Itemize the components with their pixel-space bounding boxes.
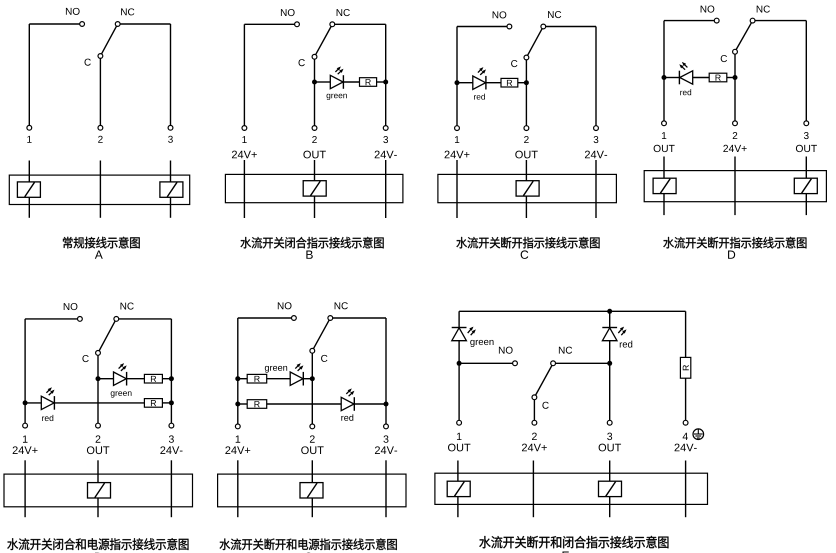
wire terminal3 to NC (D) bbox=[805, 21, 807, 121]
caption (G) bbox=[479, 536, 490, 548]
wire through block (C) bbox=[525, 160, 527, 218]
label red (G) bbox=[620, 342, 622, 347]
resistor R (E red row) bbox=[144, 399, 162, 408]
pin number 2 (C) bbox=[524, 136, 529, 143]
node NO (D) bbox=[714, 18, 719, 23]
terminal block (D) bbox=[644, 171, 826, 202]
pin number 3 (A) bbox=[168, 136, 173, 143]
node NC (B) bbox=[330, 22, 335, 27]
caption (D) bbox=[663, 237, 674, 248]
pin number 1 (A) bbox=[27, 136, 31, 143]
resistor R (E green row) bbox=[144, 374, 162, 383]
net label 24V+ (E) bbox=[13, 446, 18, 454]
wire top bus to green LED (G) bbox=[458, 311, 460, 327]
switch arm C-NC (A) bbox=[102, 26, 117, 54]
node NO (G) bbox=[513, 361, 518, 366]
pin number 3 (C) bbox=[594, 136, 599, 143]
wire terminal1 to NO (B) bbox=[243, 24, 245, 125]
terminal pin 3 (G) bbox=[607, 420, 612, 425]
wire green LED to junction (G) bbox=[458, 341, 460, 363]
wire through block (G) bbox=[685, 461, 687, 518]
diagram letter C bbox=[521, 250, 529, 258]
diagram letter D bbox=[728, 251, 735, 259]
label NC (D) bbox=[757, 6, 763, 13]
wire red LED to terminal3 (G) bbox=[609, 341, 611, 420]
wire LED to R (B) bbox=[343, 81, 359, 83]
switch arm C-NC (D) bbox=[736, 23, 751, 50]
label NO (G) bbox=[499, 347, 505, 354]
relay contact box (A) bbox=[160, 182, 183, 197]
LED red (E) bbox=[41, 396, 54, 409]
node NO (C) bbox=[507, 24, 512, 29]
LED D1 red (C) bbox=[473, 76, 486, 89]
wire through block (B) bbox=[385, 160, 387, 218]
relay contact box K1 (G) bbox=[447, 481, 470, 496]
wire NC to red branch (G) bbox=[556, 362, 610, 364]
wire LED to R (E) bbox=[54, 402, 144, 404]
terminal pin 3 (A) bbox=[168, 125, 173, 130]
wire top bus to red LED (G) bbox=[609, 311, 611, 327]
caption (F) bbox=[220, 539, 231, 550]
terminal block (B) bbox=[225, 174, 403, 202]
pin number 1 (E) bbox=[23, 435, 28, 442]
terminal pin 3 (C) bbox=[594, 126, 599, 131]
label green (F) bbox=[265, 366, 269, 373]
diagram F: open + power indication wiring bbox=[218, 302, 406, 553]
resistor R (C) bbox=[501, 78, 518, 87]
label NC (F) bbox=[335, 302, 341, 309]
wire junction to NO (G) bbox=[459, 362, 512, 364]
label NC (G) bbox=[559, 347, 565, 354]
wire LED to R (D) bbox=[693, 77, 710, 79]
label C (G) bbox=[542, 402, 548, 409]
node C (C) bbox=[524, 55, 529, 60]
terminal pin 1 (C) bbox=[455, 126, 460, 131]
wire R to junction (E) bbox=[162, 378, 171, 380]
wire C to terminal2 (A) bbox=[99, 59, 101, 126]
pin number 2 (A) bbox=[98, 136, 103, 143]
switch arm C-NC (G) bbox=[536, 366, 552, 396]
resistor R (D) bbox=[709, 73, 727, 82]
pin number 1 (C) bbox=[455, 136, 459, 143]
diagram E: closed + power indication wiring bbox=[4, 303, 193, 553]
switch arm C-NC (F) bbox=[314, 320, 330, 348]
terminal pin 2 (G) bbox=[532, 420, 537, 425]
label C (C) bbox=[511, 60, 517, 67]
label red (C) bbox=[474, 95, 476, 99]
wire top bus right down to R (G) bbox=[685, 311, 687, 357]
junction (E green row left) bbox=[96, 376, 101, 381]
LED D1 red (D) bbox=[678, 71, 680, 85]
label red (F) bbox=[341, 416, 343, 421]
label C (A) bbox=[84, 59, 90, 66]
net label 24V- (E) bbox=[160, 446, 165, 454]
label red (D) bbox=[680, 91, 682, 95]
relay contact box (B) bbox=[303, 181, 326, 196]
wire R to LED (F) bbox=[267, 378, 291, 380]
wire through block (G) bbox=[532, 461, 534, 518]
diagram letter below caption (G) bbox=[562, 552, 569, 553]
diagram A: normal wiring bbox=[9, 8, 189, 259]
wire (B LED branch) bbox=[315, 81, 331, 83]
wire R to junction (D) bbox=[727, 77, 735, 79]
LED arrows (C) bbox=[478, 67, 486, 75]
pin number 3 (F) bbox=[383, 435, 388, 442]
junction (C LED branch left) bbox=[455, 80, 460, 85]
wire R to terminal4 (G) bbox=[685, 378, 687, 420]
net label OUT (G) bbox=[599, 444, 607, 452]
node C (E) bbox=[96, 351, 101, 356]
junction (F red row left) bbox=[235, 402, 240, 407]
pin number 3 (G) bbox=[607, 433, 612, 440]
net label OUT (F) bbox=[301, 446, 309, 454]
wire R to LED (F) bbox=[267, 403, 342, 405]
label NC (B) bbox=[337, 9, 343, 16]
wire terminal1 to NO (A) bbox=[28, 24, 30, 125]
LED green (E) bbox=[114, 372, 127, 385]
node C (A) bbox=[98, 54, 103, 59]
wire terminal3 to NC (C) bbox=[595, 27, 597, 126]
node NC (D) bbox=[750, 18, 755, 23]
LED green (F) bbox=[290, 372, 303, 385]
junction (F green row left) bbox=[235, 376, 240, 381]
terminal pin 1 (A) bbox=[27, 125, 32, 130]
LED red (G) bbox=[602, 327, 617, 329]
label NO (E) bbox=[64, 303, 70, 310]
junction (B LED branch right) bbox=[383, 80, 388, 85]
wire terminal3 to NC (B) bbox=[385, 24, 387, 125]
relay contact box (D) bbox=[653, 178, 676, 193]
terminal pin 3 (B) bbox=[383, 126, 388, 131]
node NC (F) bbox=[328, 316, 333, 321]
node C (D) bbox=[733, 49, 738, 54]
node NO (B) bbox=[295, 22, 300, 27]
wire C to terminal2 (C) bbox=[525, 60, 527, 126]
wire terminal1 to NO (F) bbox=[237, 318, 239, 424]
wire terminal1 to NO (C) bbox=[456, 27, 458, 126]
terminal block (F) bbox=[218, 474, 406, 507]
terminal pin 1 (F) bbox=[235, 424, 240, 429]
terminal pin 3 (E) bbox=[169, 423, 174, 428]
LED arrows (D) bbox=[679, 62, 687, 70]
node C (B) bbox=[312, 54, 317, 59]
wire through block (D) bbox=[663, 157, 665, 216]
junction (B LED branch left) bbox=[312, 80, 317, 85]
label NO (A) bbox=[66, 8, 72, 15]
pin number 3 (D) bbox=[804, 132, 809, 139]
top bus wire (G) bbox=[459, 310, 685, 312]
net label 24V- (C) bbox=[585, 151, 590, 159]
pin number 4 (G) bbox=[683, 433, 688, 440]
wire (D LED branch) bbox=[664, 77, 679, 79]
junction (D LED branch left) bbox=[662, 75, 667, 80]
wire LED to R (C) bbox=[486, 82, 501, 84]
relay contact box (D) bbox=[794, 178, 817, 193]
LED arrows green (G) bbox=[468, 327, 476, 336]
pin number 2 (F) bbox=[310, 435, 315, 442]
terminal pin 2 (B) bbox=[312, 126, 317, 131]
wire R to junction (E) bbox=[162, 402, 171, 404]
wire C to terminal2 (B) bbox=[314, 59, 316, 125]
node NO (F) bbox=[292, 316, 297, 321]
pin number 2 (E) bbox=[96, 435, 101, 442]
label green (G) bbox=[470, 340, 474, 347]
node NC (A) bbox=[115, 22, 120, 27]
LED arrows (F) bbox=[346, 388, 354, 396]
wire through block (G) bbox=[609, 461, 611, 518]
label NO (C) bbox=[493, 11, 499, 18]
resistor R (F red row) bbox=[247, 400, 267, 409]
node NO (A) bbox=[80, 22, 85, 27]
diagram D: open-indication wiring variant bbox=[644, 6, 826, 259]
net label 24V- (B) bbox=[375, 151, 380, 159]
net label 24V- (G) bbox=[675, 444, 680, 452]
net label 24V+ (C) bbox=[445, 151, 450, 159]
wire C to terminal2 (F) bbox=[311, 353, 313, 424]
switch arm C-NC (E) bbox=[99, 321, 115, 351]
wire C to terminal2 (D) bbox=[734, 54, 736, 121]
resistor R (B) bbox=[360, 78, 377, 87]
terminal pin 1 (E) bbox=[23, 423, 28, 428]
protective earth symbol (G) bbox=[693, 429, 704, 440]
terminal pin 2 (F) bbox=[310, 424, 315, 429]
terminal pin 2 (E) bbox=[96, 423, 101, 428]
wire (E) bbox=[98, 378, 114, 380]
diagram letter A bbox=[95, 251, 103, 259]
wire through block (F) bbox=[237, 460, 239, 517]
net label OUT (D) bbox=[654, 145, 661, 152]
node NC (C) bbox=[541, 24, 546, 29]
wire through block (F) bbox=[385, 460, 387, 517]
node NC (E) bbox=[114, 317, 119, 322]
wire LED to junction (F) bbox=[303, 378, 312, 380]
wire through block (D) bbox=[805, 157, 807, 216]
net label OUT (D) bbox=[796, 145, 803, 152]
terminal block (E) bbox=[4, 474, 193, 507]
junction (F red row right) bbox=[384, 402, 389, 407]
pin number 1 (G) bbox=[457, 433, 462, 440]
resistor R (F green row) bbox=[247, 374, 267, 383]
pin number 1 (B) bbox=[242, 136, 246, 143]
label C (F) bbox=[321, 355, 327, 362]
wire terminal1 to NO (E) bbox=[24, 319, 26, 423]
terminal block (A) bbox=[9, 175, 189, 204]
node NO (E) bbox=[78, 317, 83, 322]
relay contact box K2 (G) bbox=[599, 481, 622, 496]
diagram G: open + closed indication wiring bbox=[435, 309, 708, 553]
terminal block (C) bbox=[438, 174, 617, 202]
pin number 3 (E) bbox=[169, 435, 174, 442]
terminal pin 4 (G) bbox=[683, 420, 688, 425]
LED red (F) bbox=[341, 397, 354, 410]
caption (B) bbox=[240, 237, 251, 248]
pin number 1 (D) bbox=[662, 132, 666, 139]
diagram B: closed-indication wiring bbox=[225, 9, 403, 259]
wire through block (D) bbox=[734, 157, 736, 216]
wire through block (A) bbox=[170, 161, 172, 218]
wire (F) bbox=[238, 403, 247, 405]
terminal pin 3 (D) bbox=[804, 121, 809, 126]
wire through block (G) bbox=[457, 461, 459, 518]
LED arrows red (G) bbox=[618, 327, 626, 336]
pin number 1 (F) bbox=[236, 435, 241, 442]
LED arrows (E) bbox=[46, 387, 54, 395]
pin number 2 (D) bbox=[733, 132, 738, 139]
wire through block (E) bbox=[170, 460, 172, 517]
net label 24V- (F) bbox=[375, 446, 380, 454]
label NC (A) bbox=[121, 8, 127, 15]
wire through block (E) bbox=[97, 460, 99, 517]
wire LED to junction (F) bbox=[354, 403, 386, 405]
terminal block (G) bbox=[435, 473, 708, 504]
caption (A) bbox=[63, 237, 73, 249]
label NO (F) bbox=[278, 302, 284, 309]
label green (B) bbox=[327, 94, 331, 100]
wire (E) bbox=[25, 402, 41, 404]
net label 24V+ (G) bbox=[522, 444, 527, 452]
terminal pin 1 (G) bbox=[457, 420, 462, 425]
resistor R vertical (G) bbox=[680, 357, 690, 378]
net label OUT (E) bbox=[87, 446, 95, 454]
node NC (G) bbox=[551, 361, 556, 366]
wire through block (B) bbox=[314, 160, 316, 218]
label C (D) bbox=[721, 55, 727, 62]
terminal pin 3 (F) bbox=[384, 424, 389, 429]
label NC (E) bbox=[121, 303, 127, 310]
net label OUT (B) bbox=[303, 151, 311, 159]
caption (C) bbox=[456, 237, 467, 248]
wire LED to R (E) bbox=[127, 378, 145, 380]
relay contact box (F) bbox=[300, 483, 323, 498]
wire terminal3 to NC (E) bbox=[170, 319, 172, 423]
wire through block (B) bbox=[243, 160, 245, 218]
wire C to terminal2 (E) bbox=[97, 355, 99, 423]
LED D1 green (B) bbox=[330, 75, 343, 88]
relay contact box (C) bbox=[516, 181, 539, 196]
net label 24V+ (D) bbox=[723, 145, 728, 152]
terminal pin 2 (C) bbox=[524, 126, 529, 131]
wire through block (A) bbox=[99, 161, 101, 218]
junction NC wire / red branch (G) bbox=[607, 361, 612, 366]
terminal pin 1 (B) bbox=[242, 126, 247, 131]
wire terminal1 to NO (D) bbox=[663, 21, 665, 121]
junction (D LED branch right) bbox=[733, 75, 738, 80]
wire R to junction (C) bbox=[518, 82, 527, 84]
net label OUT (G) bbox=[448, 444, 456, 452]
pin number 2 (G) bbox=[532, 433, 537, 440]
junction NO row (G) bbox=[457, 361, 462, 366]
wire terminal1 (G) bbox=[458, 363, 460, 420]
LED arrows (F) bbox=[295, 363, 303, 371]
label NC (C) bbox=[548, 11, 554, 18]
LED arrows (E) bbox=[119, 363, 127, 371]
node C (G) bbox=[532, 395, 537, 400]
net label 24V+ (F) bbox=[225, 446, 230, 454]
wire (C LED branch) bbox=[457, 82, 473, 84]
wire R to junction (B) bbox=[377, 81, 386, 83]
switch arm C-NC (C) bbox=[528, 29, 543, 56]
diagram letter B bbox=[306, 251, 312, 259]
net label 24V+ (B) bbox=[232, 151, 237, 159]
net label OUT (C) bbox=[515, 151, 523, 159]
terminal pin 1 (D) bbox=[662, 121, 667, 126]
wire through block (A) bbox=[28, 161, 30, 218]
wire through block (F) bbox=[311, 460, 313, 517]
label red (E) bbox=[42, 416, 44, 421]
wire through block (C) bbox=[595, 160, 597, 218]
wire terminal3 to NC (A) bbox=[170, 24, 172, 125]
junction (E red row right) bbox=[169, 400, 174, 405]
junction (C LED branch right) bbox=[524, 80, 529, 85]
label C (B) bbox=[298, 59, 304, 66]
label NO (B) bbox=[281, 9, 287, 16]
relay contact box (A) bbox=[17, 182, 40, 197]
diagram C: open-indication wiring bbox=[438, 11, 617, 259]
pin number 3 (B) bbox=[383, 136, 388, 143]
label green (E) bbox=[111, 391, 115, 397]
switch arm C-NC (B) bbox=[316, 27, 331, 55]
junction (E green row right) bbox=[169, 376, 174, 381]
node C (F) bbox=[310, 348, 315, 353]
terminal pin 2 (D) bbox=[733, 121, 738, 126]
junction (F green row right) bbox=[310, 376, 315, 381]
LED arrows (B) bbox=[335, 66, 343, 74]
label C (E) bbox=[82, 355, 88, 362]
wire terminal3 to NC (F) bbox=[385, 318, 387, 424]
terminal pin 2 (A) bbox=[98, 125, 103, 130]
relay contact box (E) bbox=[88, 483, 111, 498]
wire through block (E) bbox=[24, 460, 26, 517]
wire (F) bbox=[238, 378, 247, 380]
junction top bus / red LED (G) bbox=[607, 309, 612, 314]
junction (E red row left) bbox=[23, 400, 28, 405]
pin number 2 (B) bbox=[312, 136, 317, 143]
caption (E) bbox=[7, 538, 18, 550]
label NO (D) bbox=[701, 6, 707, 13]
wire through block (C) bbox=[456, 160, 458, 218]
LED green (G) bbox=[452, 327, 467, 329]
wire C to terminal2 (G) bbox=[533, 400, 535, 420]
